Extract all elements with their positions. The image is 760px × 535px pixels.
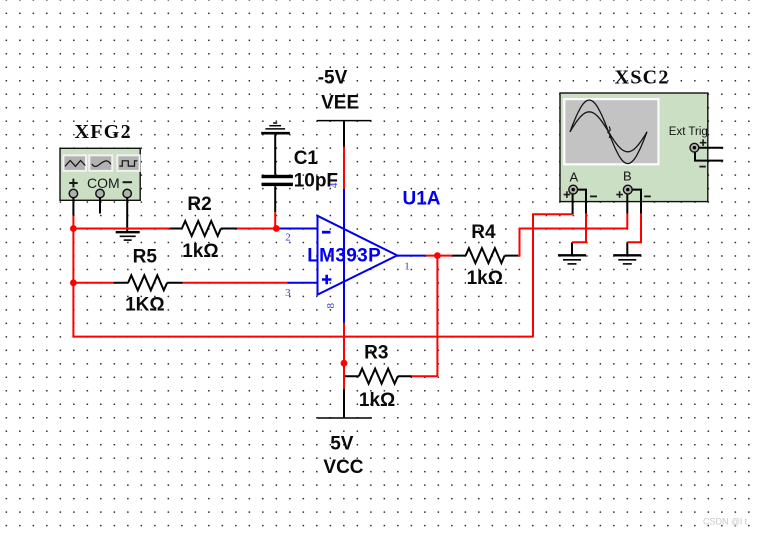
svg-text:VCC: VCC: [323, 457, 363, 478]
svg-text:C1: C1: [294, 148, 319, 169]
svg-text:CSDN @l t: CSDN @l t: [703, 517, 748, 527]
svg-text:5V: 5V: [330, 434, 354, 455]
svg-text:1kΩ: 1kΩ: [467, 268, 503, 289]
svg-text:U1A: U1A: [403, 189, 441, 210]
svg-text:8: 8: [325, 302, 337, 308]
svg-text:R2: R2: [187, 194, 211, 215]
svg-text:1kΩ: 1kΩ: [182, 241, 218, 262]
svg-text:1kΩ: 1kΩ: [359, 390, 395, 411]
svg-text:XFG2: XFG2: [75, 121, 132, 143]
svg-text:B: B: [623, 169, 632, 184]
svg-text:R3: R3: [364, 343, 388, 364]
svg-text:1: 1: [404, 260, 410, 272]
svg-text:2: 2: [285, 231, 291, 243]
svg-text:4: 4: [328, 182, 340, 188]
svg-text:XSC2: XSC2: [615, 67, 670, 89]
svg-text:R5: R5: [133, 247, 158, 268]
svg-text:1KΩ: 1KΩ: [125, 295, 165, 316]
svg-text:COM: COM: [87, 175, 120, 191]
svg-text:VEE: VEE: [321, 93, 359, 114]
svg-text:-5V: -5V: [318, 68, 348, 89]
svg-text:LM393P: LM393P: [307, 246, 381, 267]
svg-text:Ext Trig: Ext Trig: [669, 126, 708, 138]
svg-text:A: A: [570, 170, 579, 185]
svg-text:3: 3: [285, 287, 291, 299]
svg-text:R4: R4: [471, 222, 496, 243]
